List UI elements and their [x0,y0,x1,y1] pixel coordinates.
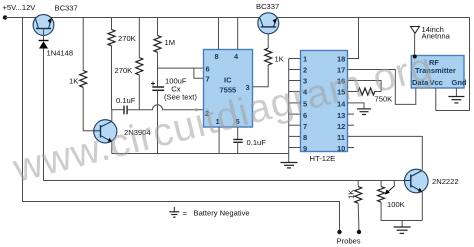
svg-text:(See text): (See text) [164,93,197,102]
ground G2 [357,109,371,115]
node probe dot left [337,230,341,234]
svg-text:2N2222: 2N2222 [432,177,459,186]
resistor R2 270K [108,30,136,46]
wire R2 down to node [111,46,113,110]
resistor R3 270K [115,58,143,76]
wire HT-12E right short stubs 13,12,10 [348,114,355,147]
potentiometer R8 100K [378,181,405,210]
wire branch x=138.8 from rail [138,18,140,58]
svg-text:8: 8 [303,133,307,142]
resistor R5 1K [265,48,284,65]
wire 1K to Q2 base [83,87,94,131]
node probe dot right [357,230,361,234]
wire C3 to ground rail [237,142,239,153]
svg-text:270K: 270K [115,66,133,75]
svg-text:Anetnna: Anetnna [422,32,451,41]
wire C1 to 7555 pin2 with hop over x=157 [127,105,203,110]
wire Q4 emitter down [421,192,423,221]
wire R8 bottom to emitter/ground [381,202,422,220]
wire pin11 to Q4 collector [348,136,423,169]
ground G4 [394,227,411,233]
wire Q2 emitter down [111,142,113,154]
transistor Q2 2N3904 [94,120,151,143]
wire RF Gnd down [455,88,457,96]
wire branch x=82.7 from rail [82,18,84,71]
resistor R6 750K [358,88,392,104]
wire ground rail y=153 [112,153,289,155]
ground G1 [281,163,298,168]
wire diode to long base wire [44,49,405,181]
ground G3 [448,97,464,103]
svg-text:11: 11 [337,133,345,142]
svg-text:IC: IC [224,76,232,85]
svg-text:18: 18 [337,55,345,64]
svg-text:1: 1 [303,55,307,64]
svg-text:13: 13 [337,111,345,120]
resistor R1 1K [69,71,87,88]
capacitor C1 0.1uF (series) [116,96,136,114]
wire 7555 pin4 up [237,18,239,50]
svg-text:1K: 1K [275,55,284,64]
svg-text:BC337: BC337 [256,2,279,11]
svg-text:1K: 1K [69,77,78,86]
wire pin14 to ground [348,103,365,109]
wire top +V rail [5,18,470,111]
IC U2 HT-12E [301,51,348,164]
wire R3 down to pin2 wire [138,75,140,110]
resistor R7 1K (probe pull) [347,181,362,204]
svg-text:9: 9 [303,144,307,153]
wire pin15 stub [348,91,359,93]
wire branch x=157 from rail [157,18,159,36]
svg-text:1M: 1M [165,38,176,47]
svg-text:Battery Negative: Battery Negative [194,209,250,218]
wire pin17 to RF Data [348,70,416,105]
svg-text:BC337: BC337 [55,3,78,12]
svg-text:=: = [183,209,188,218]
svg-text:1N4148: 1N4148 [47,49,74,58]
wire 7555 pin5 down [237,127,239,140]
wire address bus to ground [288,59,290,163]
svg-text:7: 7 [303,122,307,131]
capacitor C3 0.1uF [233,138,266,147]
wire ground stem [401,221,403,227]
wire 7555 pin1 down to ground rail [218,127,220,154]
wire RF Vcc down [435,88,437,111]
svg-text:1K: 1K [347,190,356,199]
svg-text:0.1uF: 0.1uF [116,96,136,105]
svg-text:100K: 100K [387,200,405,209]
svg-text:270K: 270K [118,34,136,43]
ground G5 battery negative legend [169,207,249,218]
svg-text:0.1uF: 0.1uF [247,138,267,147]
wire left branch x=22 down to bottom rail [23,18,340,233]
wire node to 7555 pins 6,7 [158,68,204,78]
svg-text:HT-12E: HT-12E [310,154,336,163]
svg-text:7: 7 [206,75,210,84]
wire C2 bottom to ground rail [157,90,159,153]
svg-text:8: 8 [215,52,219,61]
antenna [411,25,451,59]
wire HT-12E left pin stubs 1-9 [289,59,301,148]
capacitor C2 100uF [151,77,197,102]
wire pin16 down to R6 [348,81,382,92]
wire R7 to probe dot [357,203,360,232]
transistor Q4 2N2222 [405,169,459,193]
wire pin18 to +V rail [348,18,359,59]
svg-text:6: 6 [206,64,210,73]
module U3 RF Transmitter [411,56,467,89]
node +V supply dot [3,15,7,19]
wire 7555 pin3 to R5 [253,65,269,87]
svg-text:12: 12 [337,122,345,131]
IC U1 7555 timer [204,50,253,128]
diode D1 1N4148 [39,41,74,58]
wire R4 to node [157,52,159,86]
transistor Q1 BC337 [33,3,78,40]
transistor Q3 BC337 [256,2,279,34]
svg-text:+5V...12V: +5V...12V [3,3,37,12]
svg-text:10: 10 [337,144,345,153]
wire node to C1 [112,109,124,111]
wire Q2 collector up [111,110,113,121]
svg-text:Probes: Probes [337,237,361,246]
resistor R4 1M [154,36,175,53]
wire R5 to Q3 base [267,27,269,48]
wire pin6 stub [194,67,204,69]
wire 7555 pin8 up [218,18,220,50]
svg-text:Gnd: Gnd [452,78,467,87]
wire branch x=111 from rail [111,18,113,30]
